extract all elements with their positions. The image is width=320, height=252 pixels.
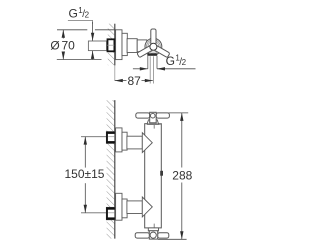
upper escutcheon flange bbox=[116, 128, 122, 152]
lower union nut bbox=[106, 207, 114, 219]
upper union tube bbox=[127, 136, 142, 149]
dia70 dimension upper arrow bbox=[62, 30, 64, 39]
wall line (top view) bbox=[114, 24, 116, 66]
dia70 dimension lower arrow bbox=[62, 52, 64, 60]
handle hub inner ring bbox=[148, 41, 159, 52]
union nut (top view) bbox=[108, 39, 115, 51]
upper pipe axis line bbox=[81, 136, 115, 138]
bottom handle screw circle bbox=[150, 232, 156, 238]
top cross handle center block bbox=[150, 112, 157, 123]
outlet inner right line bbox=[152, 56, 154, 83]
outlet thread outer right bbox=[156, 56, 158, 69]
svg-text:288: 288 bbox=[172, 168, 192, 182]
top extension line right segment bbox=[95, 29, 116, 31]
G1/2 thread arrow lower bbox=[92, 51, 94, 60]
wall line (bottom view) bbox=[114, 100, 116, 239]
lower escutcheon flange bbox=[116, 193, 122, 220]
flange step (top view) bbox=[122, 33, 127, 55]
escutcheon flange (top view) bbox=[116, 30, 122, 60]
lower union tube bbox=[127, 201, 142, 214]
upper union nut bbox=[106, 132, 114, 144]
valve body tube (top view) bbox=[127, 39, 137, 53]
wall hatch (top view) bbox=[108, 24, 115, 65]
wall hatch (bottom view) bbox=[107, 100, 115, 239]
handle center cap bbox=[150, 43, 157, 50]
supply pipe (top view) bbox=[88, 41, 106, 51]
lower flange step bbox=[122, 199, 127, 218]
handle hub outer ring bbox=[145, 38, 162, 55]
top neck trapezoid bbox=[147, 120, 159, 124]
upper flange step bbox=[122, 132, 127, 150]
svg-text:87: 87 bbox=[128, 74, 142, 88]
288 dimension line upper segment bbox=[181, 113, 183, 168]
handle spoke up bbox=[151, 29, 156, 47]
G1/2 label underline bbox=[68, 21, 93, 25]
G1/2 outlet arrow left bbox=[133, 68, 148, 70]
valve bonnet (top view) bbox=[137, 40, 147, 52]
288 bottom extension line bbox=[158, 238, 187, 240]
bottom cross handle left arm bbox=[135, 233, 149, 238]
handle hub middle ring bbox=[147, 40, 161, 54]
top handle screw circle bbox=[151, 113, 156, 118]
outlet thread outer left bbox=[147, 56, 149, 69]
bottom neck bbox=[148, 228, 158, 231]
150+-15 dimension line upper segment bbox=[84, 137, 86, 168]
column top chamfer shading bbox=[147, 123, 161, 125]
column bottom center tick bbox=[153, 224, 155, 228]
thermostat column body bbox=[145, 124, 162, 228]
lower pipe axis line bbox=[81, 212, 115, 214]
top cross handle left arm bbox=[136, 113, 150, 118]
150+-15 dimension line lower segment bbox=[84, 183, 86, 213]
dark collar under handle bbox=[147, 53, 157, 55]
handle spoke lower-right bbox=[137, 44, 155, 57]
column scale marker bbox=[160, 171, 163, 176]
handle spoke lower-left bbox=[152, 44, 170, 57]
top cross handle right arm bbox=[156, 113, 169, 118]
G1/2 thread arrow upper bbox=[92, 22, 94, 41]
column top center tick bbox=[153, 125, 155, 129]
87 dimension line right segment bbox=[142, 80, 153, 82]
bottom cross handle center block bbox=[149, 231, 157, 239]
bottom extension line bbox=[57, 59, 102, 61]
svg-text:150±15: 150±15 bbox=[65, 167, 105, 181]
outlet inner left line bbox=[149, 56, 151, 83]
lower compression cone bbox=[142, 197, 152, 217]
288 top extension line bbox=[169, 112, 189, 114]
288 dimension line lower segment bbox=[181, 183, 183, 240]
svg-text:Ø70: Ø70 bbox=[50, 39, 75, 53]
G1/2 outlet arrow right bbox=[157, 68, 196, 70]
top extension line left segment bbox=[57, 29, 87, 31]
bottom cross handle right arm bbox=[158, 233, 169, 238]
87 dimension line left segment bbox=[115, 80, 127, 82]
upper compression cone bbox=[142, 133, 152, 153]
